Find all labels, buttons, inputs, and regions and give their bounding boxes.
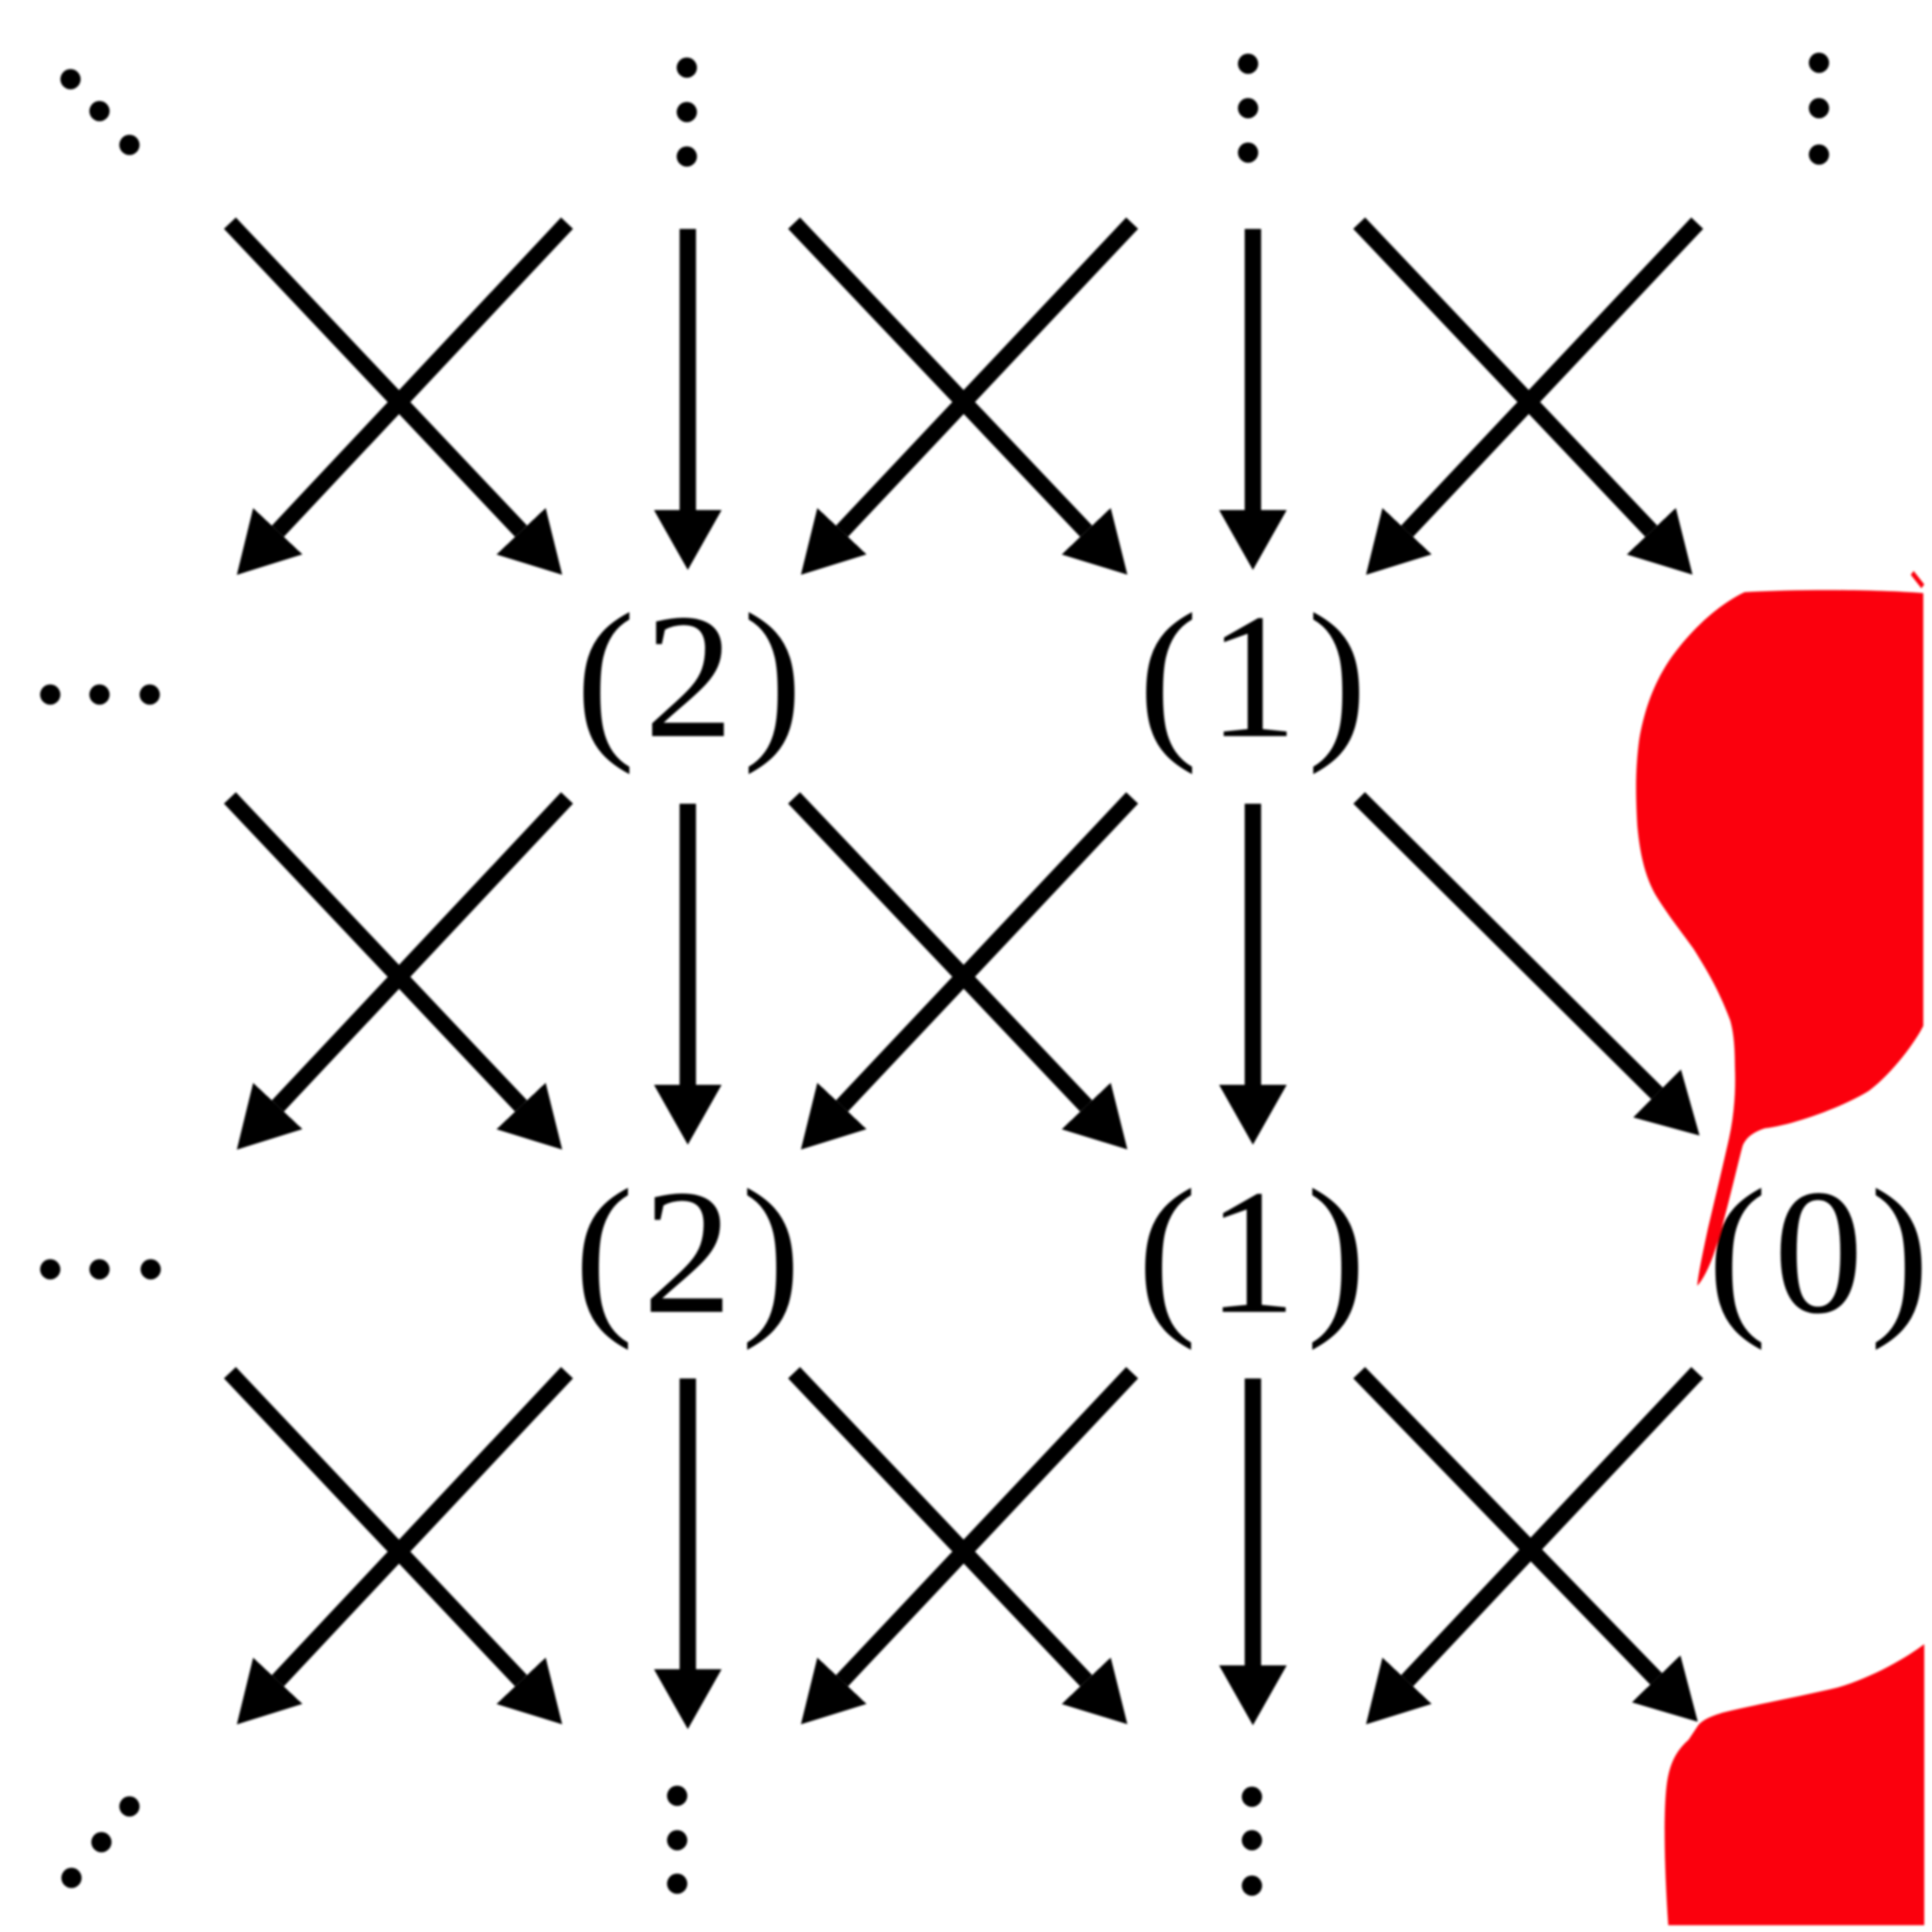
wire arrow down-right L to 2	[230, 798, 521, 1106]
wire arrows bottom band	[230, 1373, 1697, 1681]
node dots left row 1	[41, 685, 160, 705]
svg-text:(0): (0)	[1708, 1153, 1932, 1351]
wire arrow down-left 0 to 1	[1407, 1373, 1697, 1681]
red blob upper right	[1636, 590, 1923, 1286]
wire arrow vertical col 2	[680, 1378, 696, 1669]
wire arrow vertical col 1	[1245, 229, 1262, 510]
red blob bottom right	[1664, 1644, 1924, 1925]
wire arrow down-left 0 to 1	[1407, 223, 1697, 531]
node dots bottom-left diagonal ellipsis	[62, 1797, 140, 1889]
wire arrow down-right 1 to 0	[1359, 798, 1657, 1094]
wire arrow down-right 2 to 1	[794, 798, 1086, 1106]
wire arrow down-left 2 to L	[278, 223, 567, 531]
svg-text:(2): (2)	[576, 578, 811, 776]
wire arrow down-left 1 to 2	[842, 223, 1132, 531]
node dots bottom column 2	[668, 1786, 688, 1894]
wire arrow down-right L to 2	[230, 1373, 521, 1681]
wire arrow down-right 1 to 0	[1359, 223, 1651, 531]
wire arrow vertical col 1	[1245, 804, 1262, 1085]
wire arrow down-right 2 to 1	[794, 223, 1086, 531]
svg-text:(1): (1)	[1138, 578, 1377, 776]
wire arrow down-left 2 to L	[278, 1373, 567, 1681]
wire arrows middle band	[230, 798, 1657, 1106]
node dots top-left diagonal ellipsis	[61, 70, 140, 156]
node dots top column 2	[677, 58, 697, 167]
wire arrow vertical col 2	[680, 229, 696, 510]
wire arrow down-right 1 to 0	[1359, 1373, 1656, 1679]
svg-text:(2): (2)	[574, 1153, 810, 1351]
wire arrows top band	[230, 223, 1697, 531]
wire arrow down-right 2 to 1	[794, 1373, 1086, 1681]
node dots bottom column 1	[1242, 1787, 1263, 1896]
svg-text:(1): (1)	[1137, 1153, 1376, 1351]
wire arrow down-right L to 2	[230, 223, 521, 531]
red sliver near top right	[1911, 571, 1924, 588]
node dots top column 0	[1809, 53, 1830, 165]
wire arrow down-left 1 to 2	[842, 798, 1132, 1106]
wire arrow down-left 1 to 2	[842, 1373, 1132, 1681]
wire arrow down-left 2 to L	[278, 798, 567, 1106]
wire arrow vertical col 1	[1245, 1378, 1262, 1665]
node dots left row 2	[41, 1260, 161, 1280]
wire arrow vertical col 2	[680, 804, 696, 1085]
node dots top column 1	[1238, 54, 1259, 163]
